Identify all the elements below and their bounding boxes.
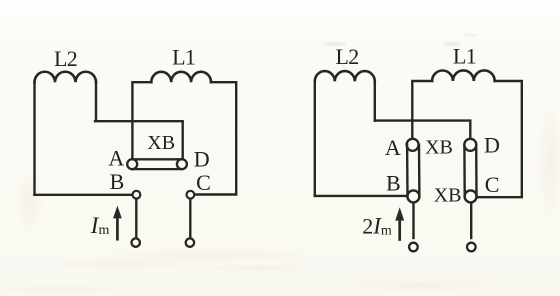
svg-text:D: D [484, 133, 500, 158]
wire below link terminal C [470, 203, 472, 238]
inductor L1 (left circuit) [151, 72, 211, 82]
wire right L1 right lead down to link terminal C [477, 81, 522, 197]
wire below link terminal B [412, 203, 414, 238]
svg-text:A: A [108, 146, 124, 171]
inductor L2 (left circuit) [35, 72, 97, 83]
wire right L2 right lead down [374, 81, 376, 120]
open terminal below right C [467, 243, 476, 252]
jumper link XB between A and B [407, 139, 420, 203]
svg-text:A: A [385, 135, 401, 160]
svg-text:C: C [485, 172, 500, 197]
wire L2 left lead down [33, 82, 35, 195]
terminal B circle [133, 191, 141, 199]
inductor L1 (right circuit) [432, 70, 495, 81]
wire L1 right lead down to terminal C [195, 82, 236, 194]
svg-text:B: B [110, 169, 125, 194]
wire L2 right lead down [95, 82, 97, 121]
svg-text:C: C [196, 170, 211, 195]
terminal C circle [187, 191, 195, 199]
svg-text:L2: L2 [335, 44, 358, 69]
wire right L1 left lead down to link terminal A [412, 81, 432, 139]
wire below B [135, 200, 137, 238]
svg-text:XB: XB [147, 132, 175, 154]
svg-text:XB: XB [425, 137, 453, 159]
open terminal below C [186, 238, 194, 246]
wire below C [189, 200, 191, 238]
jumper link XB between A and D [127, 159, 187, 169]
inductor L2 (right circuit) [315, 71, 375, 81]
current arrow Im [113, 206, 122, 240]
open terminal below B [132, 238, 140, 246]
jumper link XB between D and C [464, 139, 476, 203]
svg-text:L1: L1 [172, 45, 195, 70]
current arrow 2Im [395, 207, 404, 239]
open terminal below right B [409, 243, 418, 252]
wire right L2 left lead down [314, 81, 316, 195]
wire from right L2 across to link terminal D [375, 121, 471, 139]
svg-text:L2: L2 [54, 46, 77, 71]
svg-text:D: D [194, 147, 210, 172]
wire from L2 across to terminal D [95, 121, 183, 159]
wire L1 left lead down to terminal A [132, 82, 151, 159]
svg-text:XB: XB [434, 185, 462, 207]
svg-text:B: B [386, 171, 401, 196]
wire bottom left to terminal B [35, 194, 132, 196]
wire bottom left to link terminal B [315, 195, 407, 197]
svg-text:L1: L1 [453, 43, 476, 68]
